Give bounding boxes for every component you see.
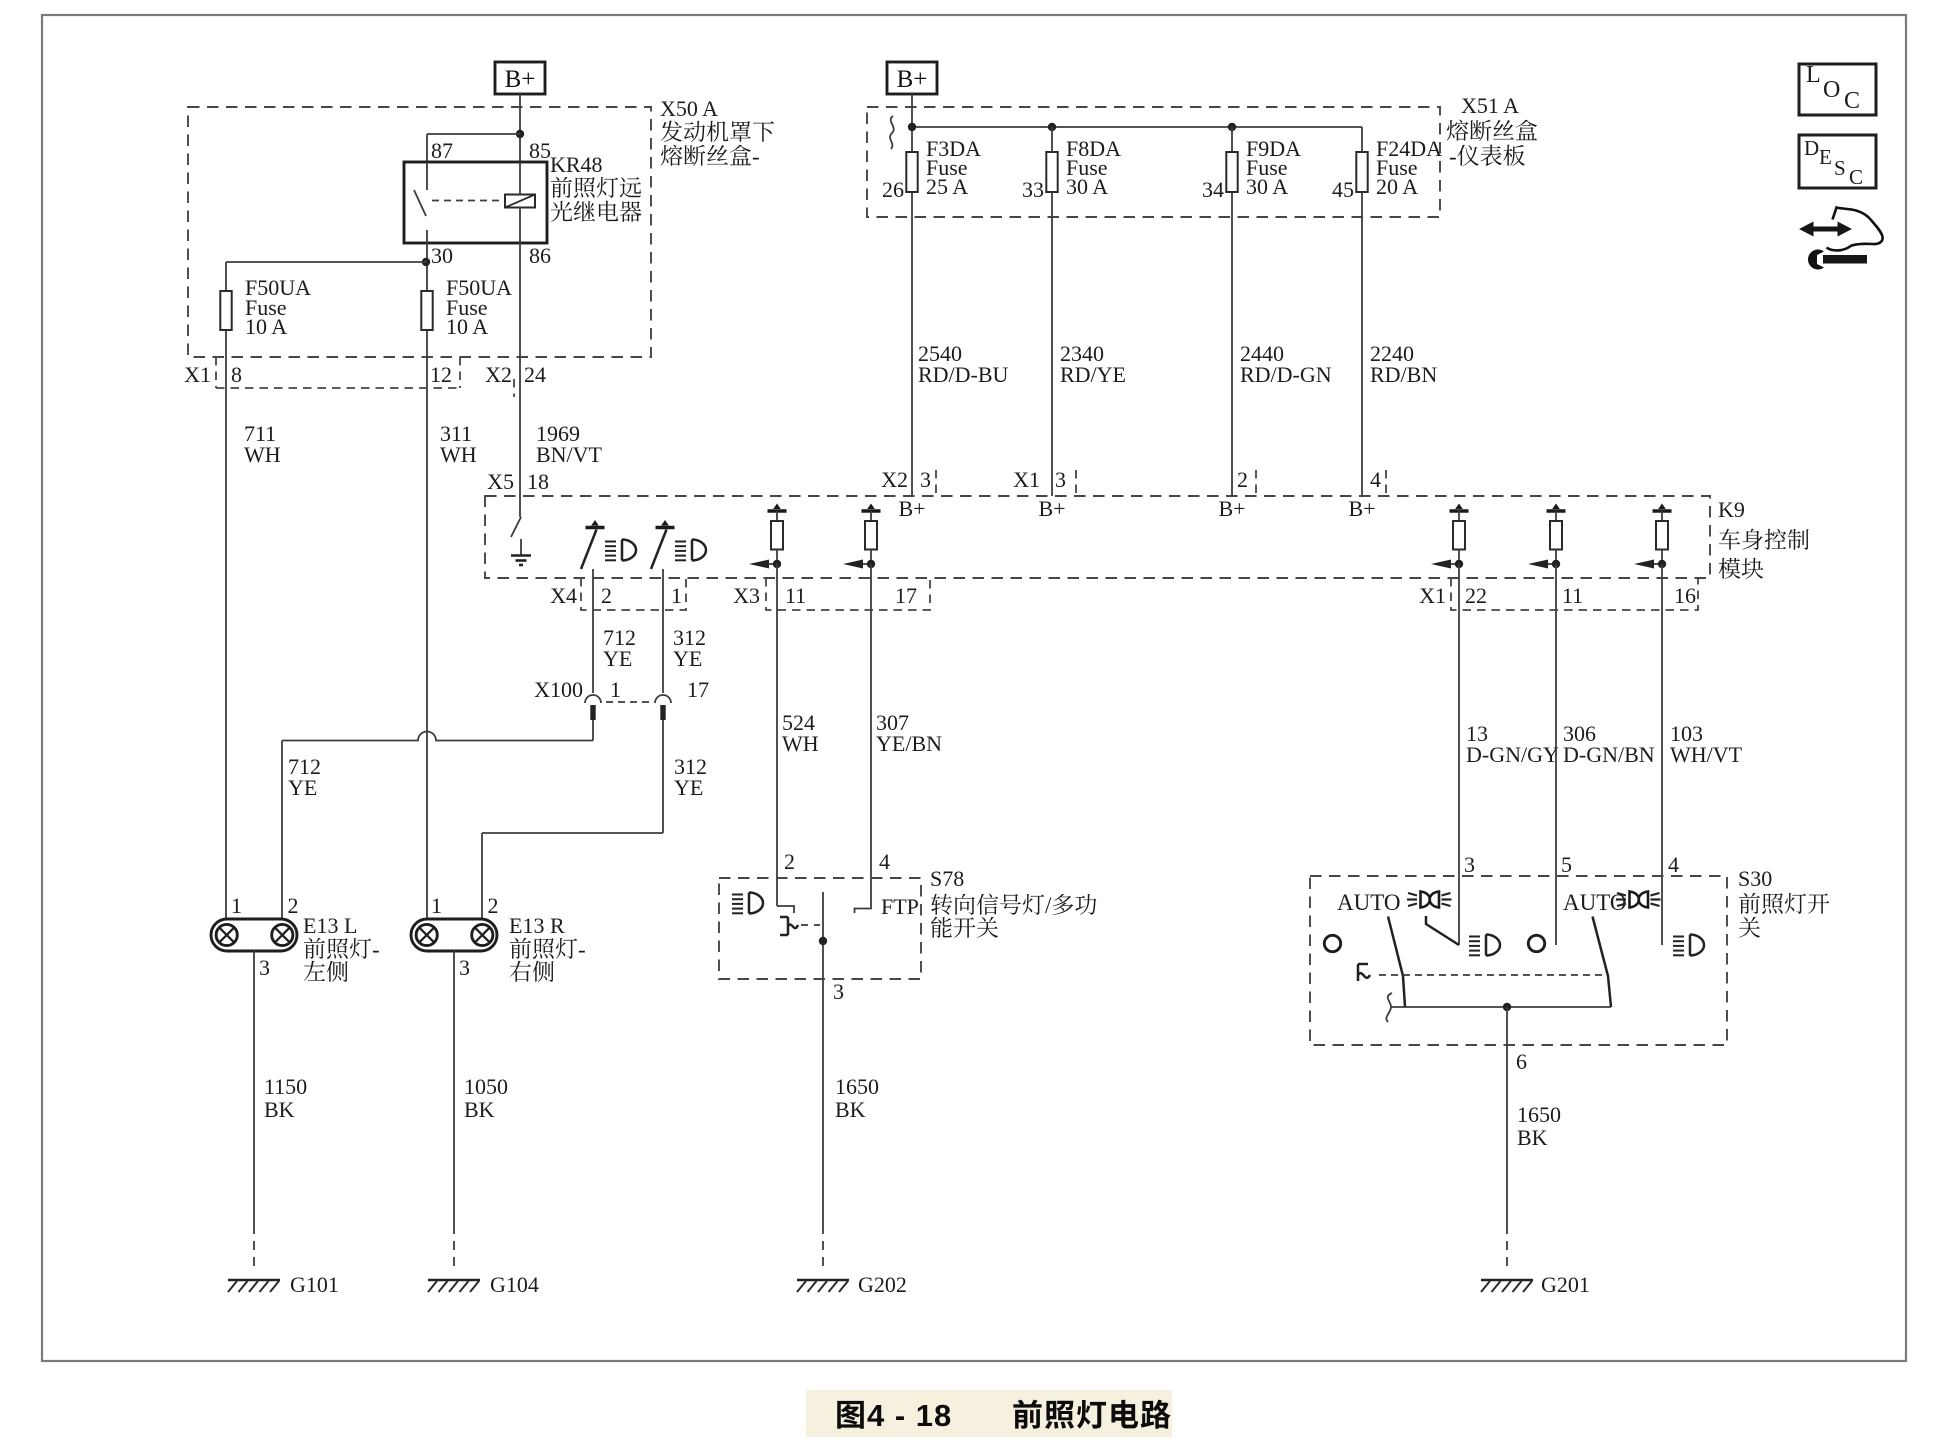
svg-text:3: 3	[459, 955, 470, 980]
svg-text:YE: YE	[673, 646, 702, 671]
svg-text:30 A: 30 A	[1066, 174, 1108, 199]
svg-text:25 A: 25 A	[926, 174, 968, 199]
svg-text:-仪表板: -仪表板	[1449, 138, 1526, 171]
svg-text:1: 1	[671, 583, 682, 608]
svg-text:X2: X2	[485, 362, 512, 387]
svg-text:RD/BN: RD/BN	[1370, 362, 1437, 387]
svg-text:FTP: FTP	[881, 894, 919, 919]
svg-text:2: 2	[1237, 467, 1248, 492]
svg-text:1150: 1150	[264, 1074, 307, 1099]
svg-text:4: 4	[1370, 467, 1381, 492]
svg-text:C: C	[1849, 165, 1863, 189]
svg-text:34: 34	[1202, 177, 1224, 202]
svg-text:1: 1	[610, 677, 621, 702]
svg-text:5: 5	[1561, 852, 1572, 877]
svg-text:关: 关	[1738, 910, 1761, 943]
svg-text:L: L	[1806, 62, 1821, 88]
svg-text:BK: BK	[835, 1097, 866, 1122]
svg-text:YE: YE	[288, 775, 317, 800]
svg-text:O: O	[1823, 77, 1840, 103]
svg-text:10 A: 10 A	[446, 314, 488, 339]
svg-text:G202: G202	[858, 1272, 907, 1297]
svg-text:85: 85	[529, 138, 551, 163]
svg-text:11: 11	[1562, 583, 1583, 608]
svg-text:2: 2	[488, 893, 499, 918]
svg-text:B+: B+	[898, 496, 925, 521]
svg-text:30 A: 30 A	[1246, 174, 1288, 199]
svg-text:4: 4	[879, 849, 890, 874]
svg-text:87: 87	[431, 138, 453, 163]
svg-text:X1: X1	[184, 362, 211, 387]
svg-text:3: 3	[259, 955, 270, 980]
svg-text:33: 33	[1022, 177, 1044, 202]
svg-text:10 A: 10 A	[245, 314, 287, 339]
svg-text:能开关: 能开关	[930, 910, 999, 943]
svg-text:2: 2	[784, 849, 795, 874]
svg-text:16: 16	[1674, 583, 1696, 608]
svg-text:3: 3	[1055, 467, 1066, 492]
svg-text:20 A: 20 A	[1376, 174, 1418, 199]
svg-text:G104: G104	[490, 1272, 539, 1297]
svg-text:11: 11	[785, 583, 806, 608]
svg-text:X4: X4	[550, 583, 577, 608]
svg-text:18: 18	[527, 469, 549, 494]
svg-text:右侧: 右侧	[509, 954, 555, 987]
svg-text:AUTO: AUTO	[1337, 890, 1400, 915]
svg-text:X1: X1	[1013, 467, 1040, 492]
svg-text:WH/VT: WH/VT	[1670, 742, 1743, 767]
svg-text:8: 8	[231, 362, 242, 387]
svg-text:熔断丝盒-: 熔断丝盒-	[660, 138, 760, 171]
svg-text:1050: 1050	[464, 1074, 508, 1099]
svg-text:X5: X5	[487, 469, 514, 494]
svg-text:G201: G201	[1541, 1272, 1590, 1297]
svg-text:3: 3	[833, 979, 844, 1004]
svg-text:WH: WH	[244, 442, 281, 467]
svg-text:RD/D-BU: RD/D-BU	[918, 362, 1009, 387]
svg-text:X1: X1	[1419, 583, 1446, 608]
svg-text:B+: B+	[505, 66, 536, 93]
svg-text:26: 26	[882, 177, 904, 202]
svg-text:1650: 1650	[1517, 1102, 1561, 1127]
svg-text:BK: BK	[264, 1097, 295, 1122]
svg-text:图4 - 18: 图4 - 18	[835, 1390, 952, 1435]
svg-text:B+: B+	[1038, 496, 1065, 521]
svg-text:6: 6	[1516, 1049, 1527, 1074]
svg-text:12: 12	[430, 362, 452, 387]
svg-text:RD/D-GN: RD/D-GN	[1240, 362, 1332, 387]
svg-text:K9: K9	[1718, 497, 1745, 522]
svg-text:光继电器: 光继电器	[550, 194, 642, 227]
svg-text:3: 3	[920, 467, 931, 492]
svg-text:YE/BN: YE/BN	[876, 731, 942, 756]
svg-text:D-GN/GY: D-GN/GY	[1466, 742, 1559, 767]
svg-text:X3: X3	[733, 583, 760, 608]
svg-text:X100: X100	[534, 677, 583, 702]
svg-text:G101: G101	[290, 1272, 339, 1297]
svg-text:B+: B+	[1348, 496, 1375, 521]
svg-text:S: S	[1834, 156, 1846, 180]
svg-text:前照灯电路: 前照灯电路	[1012, 1390, 1172, 1435]
svg-text:B+: B+	[897, 66, 928, 93]
svg-text:C: C	[1844, 88, 1860, 114]
svg-text:2: 2	[288, 893, 299, 918]
svg-text:BK: BK	[464, 1097, 495, 1122]
svg-text:BN/VT: BN/VT	[536, 442, 603, 467]
svg-text:B+: B+	[1218, 496, 1245, 521]
svg-text:22: 22	[1465, 583, 1487, 608]
svg-text:2: 2	[601, 583, 612, 608]
svg-text:17: 17	[895, 583, 917, 608]
svg-text:模块: 模块	[1718, 551, 1764, 584]
svg-text:X2: X2	[881, 467, 908, 492]
svg-text:30: 30	[431, 243, 453, 268]
svg-text:24: 24	[524, 362, 546, 387]
svg-text:WH: WH	[782, 731, 819, 756]
svg-text:86: 86	[529, 243, 551, 268]
svg-text:1650: 1650	[835, 1074, 879, 1099]
svg-text:17: 17	[687, 677, 709, 702]
svg-text:YE: YE	[674, 775, 703, 800]
svg-text:45: 45	[1332, 177, 1354, 202]
svg-text:RD/YE: RD/YE	[1060, 362, 1126, 387]
svg-text:D: D	[1804, 136, 1819, 160]
svg-text:3: 3	[1464, 852, 1475, 877]
svg-text:YE: YE	[603, 646, 632, 671]
svg-text:4: 4	[1668, 852, 1679, 877]
svg-text:E: E	[1819, 145, 1832, 169]
svg-text:BK: BK	[1517, 1125, 1548, 1150]
svg-text:1: 1	[431, 893, 442, 918]
svg-text:WH: WH	[440, 442, 477, 467]
svg-text:1: 1	[231, 893, 242, 918]
svg-text:D-GN/BN: D-GN/BN	[1563, 742, 1655, 767]
svg-text:左侧: 左侧	[303, 954, 349, 987]
